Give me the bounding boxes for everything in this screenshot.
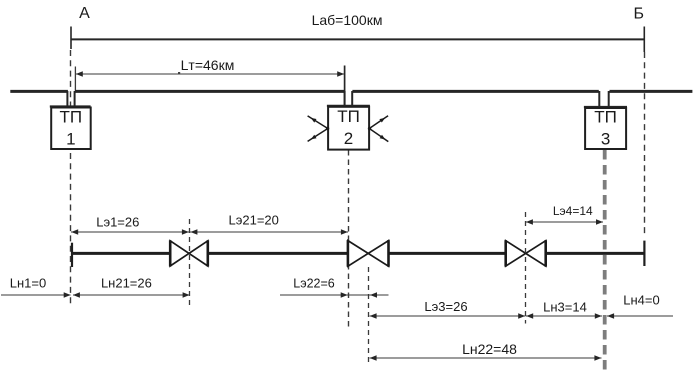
Le1 left arrowhead	[71, 229, 78, 234]
TP2 interference arrow lower-left	[308, 129, 328, 142]
valve V1 axis (dashed)	[189, 219, 191, 307]
TP1 box	[51, 108, 90, 150]
TP2 interference arrows vertex dot left	[326, 127, 329, 130]
TP1 drop wire left	[66, 91, 68, 108]
valve V3 right triangle	[526, 241, 546, 266]
TP2 axis (dashed)	[348, 150, 350, 330]
valve V2 axis (dashed)	[368, 267, 370, 364]
svg-text:Lэ4=14: Lэ4=14	[553, 204, 593, 218]
svg-text:Lн4=0: Lн4=0	[623, 293, 659, 308]
Le21 right arrowhead	[341, 229, 348, 234]
svg-text:А: А	[79, 5, 90, 22]
svg-text:ТП: ТП	[337, 107, 360, 126]
TP3 axis (thick gray dashed)	[603, 150, 607, 373]
svg-text:2: 2	[344, 129, 353, 148]
Ln22 right arrowhead	[594, 355, 601, 360]
Le4 left arrowhead	[526, 219, 533, 224]
svg-text:Lн21=26: Lн21=26	[101, 275, 152, 290]
Le1 right arrowhead	[182, 229, 189, 234]
dimension Le3=26 line	[370, 315, 526, 317]
dimension Lab left tick	[70, 27, 72, 50]
dimension Le21=20 line	[190, 231, 348, 233]
node A axis (dashed)	[70, 50, 72, 307]
svg-text:Lн3=14: Lн3=14	[543, 299, 587, 314]
Ln21 left arrowhead	[73, 292, 80, 297]
valve V2 left triangle	[348, 241, 368, 267]
svg-text:Lэ3=26: Lэ3=26	[424, 299, 467, 314]
svg-text:Б: Б	[633, 6, 644, 23]
svg-text:Lн1=0: Lн1=0	[10, 275, 46, 290]
Ln3 left arrowhead	[526, 313, 533, 318]
communication line segment 3	[352, 90, 598, 93]
Ln22 left arrowhead	[370, 355, 377, 360]
cable segment 4	[546, 252, 645, 255]
stray dot near Lt label	[178, 72, 180, 74]
dimension Ln3=14 line	[526, 315, 602, 317]
TP3 drop wire right	[608, 91, 610, 108]
valve V1 left triangle	[170, 241, 189, 266]
svg-text:Lэ21=20: Lэ21=20	[229, 213, 279, 228]
valve V3 left edge bold	[504, 240, 507, 266]
valve V1 right triangle	[189, 241, 208, 266]
Lt extension line at TP2	[344, 66, 346, 107]
dimension Ln21=26 line	[73, 294, 190, 296]
Le3 left arrowhead	[370, 313, 377, 318]
valve V1 left edge bold	[169, 240, 172, 266]
Lt right arrowhead	[337, 71, 344, 76]
communication line segment 2	[75, 90, 344, 93]
valve V2 left edge bold	[347, 240, 350, 267]
Le21 left arrowhead	[190, 229, 197, 234]
TP2 interference arrow lower-right	[370, 129, 389, 142]
cable left end tick	[71, 243, 73, 267]
valve V3 left triangle	[506, 241, 526, 266]
TP3 box top bar	[584, 106, 627, 108]
TP1 drop wire right	[74, 91, 76, 108]
cable segment 3	[389, 252, 506, 255]
dimension Lt=46km line	[76, 73, 344, 75]
TP2 box top bar	[327, 105, 370, 107]
Le4 right arrowhead	[596, 219, 603, 224]
valve V2 right edge bold	[387, 240, 390, 267]
cable segment 1	[72, 252, 170, 255]
svg-text:ТП: ТП	[59, 107, 82, 126]
svg-text:Lаб=100км: Lаб=100км	[312, 12, 383, 28]
TP3 box	[585, 108, 626, 149]
communication line segment 4	[610, 90, 693, 93]
Lt extension line at TP1	[74, 67, 76, 91]
dimension Ln22=48 line	[370, 357, 602, 359]
svg-text:Lн22=48: Lн22=48	[462, 341, 517, 357]
svg-text:3: 3	[601, 130, 610, 149]
Lt left arrowhead	[76, 71, 83, 76]
svg-text:ТП: ТП	[594, 108, 617, 127]
TP3 drop wire left	[598, 91, 600, 108]
cable segment 2	[208, 252, 348, 255]
valve V3 axis (dashed)	[525, 212, 527, 324]
svg-text:Lэ1=26: Lэ1=26	[96, 215, 139, 230]
dimension Lab right tick	[643, 27, 645, 53]
TP2 drop wire left	[344, 91, 346, 107]
valve V2 right triangle	[368, 241, 388, 267]
TP2 box	[328, 107, 369, 150]
dimension Le4=14 line	[526, 221, 603, 223]
Ln4 left-pointing arrowhead	[607, 313, 614, 318]
TP2 interference arrow upper-right	[370, 116, 388, 129]
dimension Ln4=0 line	[607, 315, 673, 317]
TP2 interference arrow upper-left	[308, 116, 328, 128]
dimension Ln1=0 line	[1, 294, 71, 296]
Ln3 right arrowhead	[595, 313, 602, 318]
valve V1 right edge bold	[207, 240, 210, 266]
node B axis (dashed)	[644, 52, 646, 234]
cable right end tick	[643, 241, 645, 266]
Le22 right-pointing arrowhead	[341, 292, 348, 297]
svg-text:Lэ22=6: Lэ22=6	[293, 276, 335, 290]
valve V3 right edge bold	[544, 240, 547, 266]
TP1 box top bar	[50, 105, 91, 107]
svg-text:Lт=46км: Lт=46км	[181, 57, 235, 73]
dimension Le1=26 line	[71, 231, 189, 233]
Le3 right arrowhead	[518, 313, 525, 318]
Ln21 right arrowhead	[183, 292, 190, 297]
svg-text:1: 1	[66, 130, 75, 149]
dimension Le22=6 line	[280, 294, 389, 296]
Ln1 right-pointing arrowhead	[64, 292, 71, 297]
TP2 drop wire right	[351, 91, 353, 107]
TP2 interference arrows vertex dot right	[368, 127, 371, 130]
Le22 left-pointing arrowhead	[370, 292, 377, 297]
communication line segment 1	[10, 90, 68, 93]
dimension Lab=100km line	[71, 38, 644, 40]
